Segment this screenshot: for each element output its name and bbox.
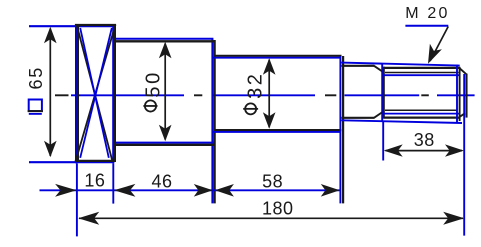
thread leader arrow — [422, 44, 442, 67]
neck and thread blue outline (sloped) — [341, 63, 462, 123]
dimension phi32 line — [268, 60, 270, 127]
neck black lines — [342, 66, 375, 118]
dim 46 right arrow — [194, 184, 213, 197]
thread start edge blue — [381, 64, 383, 122]
end face blue and extension line — [463, 74, 465, 236]
phi symbol of dim 32 — [245, 103, 256, 114]
dimension 38 arrow right — [445, 144, 464, 156]
thread minor blue lines — [384, 75, 460, 113]
svg-text:46: 46 — [151, 171, 172, 191]
svg-text:M 20: M 20 — [405, 5, 449, 22]
dimension square-65 arrow up — [44, 27, 57, 44]
end chamfer diagonals black — [457, 68, 466, 118]
phi50 section blue outline — [115, 39, 213, 204]
flange blue outline — [29, 25, 114, 163]
dim 58 right arrow — [321, 184, 340, 197]
dim 16/46 shared arrow — [114, 184, 135, 197]
svg-text:38: 38 — [414, 130, 435, 150]
thread start edge — [383, 67, 385, 119]
thread minor black lines — [385, 73, 459, 111]
flange black outline — [75, 24, 116, 162]
phi50 section black outline — [115, 40, 215, 203]
dimension phi50 arrow down — [159, 125, 172, 142]
dimension phi32 arrow up — [263, 58, 276, 74]
square symbol of dim 65 — [29, 100, 42, 112]
chamfer start vertical black — [459, 67, 461, 121]
dimension phi50 line — [164, 44, 166, 140]
svg-text:180: 180 — [262, 199, 294, 219]
centerline — [55, 94, 475, 96]
thread leader line — [430, 27, 448, 62]
dimension square-65 arrow down — [44, 141, 57, 158]
svg-text:32: 32 — [244, 71, 266, 98]
extension lines below flange — [77, 163, 113, 236]
svg-text:58: 58 — [262, 171, 283, 191]
dim 180 left arrow — [78, 212, 99, 225]
svg-text:65: 65 — [26, 66, 46, 89]
dimension square-65 line — [49, 29, 51, 157]
phi32 section blue outline — [213, 56, 340, 203]
thread runout chamfer diagonals — [374, 66, 384, 118]
chamfer start vertical blue — [456, 65, 458, 123]
dimension 38 line — [386, 150, 463, 152]
dimension phi50 arrow up — [159, 42, 172, 59]
flange cross blue — [80, 28, 112, 158]
svg-text:50: 50 — [143, 70, 165, 97]
dim 58 left arrow — [215, 184, 234, 197]
flange cross black — [76, 25, 116, 162]
dimension phi32 arrow down — [263, 112, 276, 129]
bottom dimension line for 16 46 58 — [40, 189, 341, 191]
phi32 section black outline — [214, 56, 343, 204]
end face black — [465, 74, 467, 118]
dim 38 extension left — [382, 122, 384, 161]
dimension 180 line — [79, 217, 463, 219]
thread crest black lines — [384, 68, 460, 118]
dim 16 left outside arrow — [55, 184, 77, 197]
phi symbol of dim 50 — [145, 100, 156, 111]
dimension 38 arrow left — [384, 144, 403, 156]
svg-text:16: 16 — [84, 170, 105, 190]
dim 180 right arrow — [443, 212, 464, 225]
thread label underline — [405, 25, 448, 27]
